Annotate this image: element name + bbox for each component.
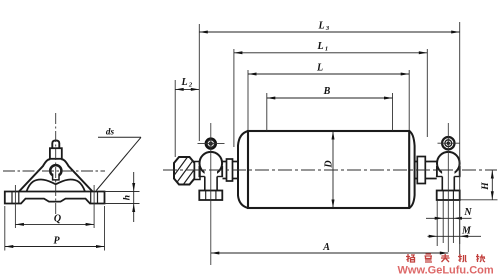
svg-text:M: M (461, 226, 472, 237)
dimension B (267, 86, 393, 131)
svg-text:ds: ds (106, 127, 115, 137)
drum left end cap (238, 131, 248, 208)
left locking collar (227, 159, 233, 181)
dimension P (5, 206, 105, 251)
left bearing housing (199, 152, 224, 191)
left bearing centerline (210, 123, 212, 265)
dimension D (323, 131, 334, 208)
bracket horizontal centerline (3, 170, 105, 172)
dimension L1 (234, 41, 427, 147)
right locking collar (417, 157, 425, 184)
left hole centerline (14, 185, 16, 228)
char ge (406, 254, 415, 262)
top grease screw (50, 140, 62, 158)
dimension L3 (199, 21, 459, 142)
shaft step collar (195, 162, 201, 180)
shaft bore circle (50, 165, 61, 176)
drum shell (248, 131, 409, 208)
bracket arch cutout (27, 180, 86, 192)
left bolt hole (12, 192, 19, 204)
right shaft stub (415, 162, 437, 179)
svg-text:D: D (323, 160, 334, 168)
left pedestal base (199, 191, 222, 201)
dimension h (105, 172, 140, 222)
svg-text:B: B (323, 86, 331, 97)
svg-text:L: L (317, 21, 324, 32)
keyway (53, 174, 59, 180)
right bearing centerline (447, 123, 449, 252)
right bolt hole (91, 192, 98, 204)
svg-text:A: A (322, 242, 330, 253)
svg-text:3: 3 (325, 25, 330, 32)
char ji (458, 254, 467, 262)
svg-text:2: 2 (188, 82, 193, 89)
watermark line 1 : GeLufu Chinese chars drawn as strokes (406, 254, 485, 262)
right hole centerline (93, 185, 95, 228)
char xie (476, 254, 485, 262)
svg-text:L: L (316, 41, 323, 52)
main shaft centerline (163, 169, 497, 171)
right grease fitting (438, 137, 460, 149)
svg-text:Www.GeLufu.Com: Www.GeLufu.Com (398, 265, 494, 277)
shaft end with section hatch (167, 155, 209, 191)
bracket triangle right slope (61, 159, 92, 191)
svg-text:H: H (481, 182, 491, 191)
drum right end cap (409, 131, 414, 208)
left grease fitting (198, 138, 225, 149)
left shaft stub (223, 162, 239, 179)
base slot extension lines (437, 200, 460, 258)
dimension M (428, 226, 482, 238)
watermark line 2 (398, 265, 494, 277)
bracket vertical centerline (55, 113, 57, 214)
dimension H (461, 170, 498, 200)
svg-text:h: h (123, 195, 133, 200)
char fu (441, 254, 450, 262)
dimension Q (15, 214, 94, 226)
svg-text:L: L (180, 77, 187, 88)
dimension L (248, 63, 409, 131)
svg-text:Q: Q (54, 214, 61, 225)
label ds with leader to bolt hole (96, 127, 141, 191)
dimension L2 (175, 77, 199, 91)
char lu (425, 254, 433, 262)
bracket triangle left slope (19, 159, 50, 191)
dimension N (426, 207, 472, 220)
right bearing housing (436, 152, 461, 191)
base plate (5, 192, 105, 204)
dimension A (175, 22, 460, 255)
svg-text:P: P (53, 236, 60, 247)
svg-text:1: 1 (325, 46, 328, 53)
svg-text:L: L (316, 63, 323, 74)
svg-text:N: N (463, 207, 472, 218)
right pedestal base (437, 191, 460, 201)
